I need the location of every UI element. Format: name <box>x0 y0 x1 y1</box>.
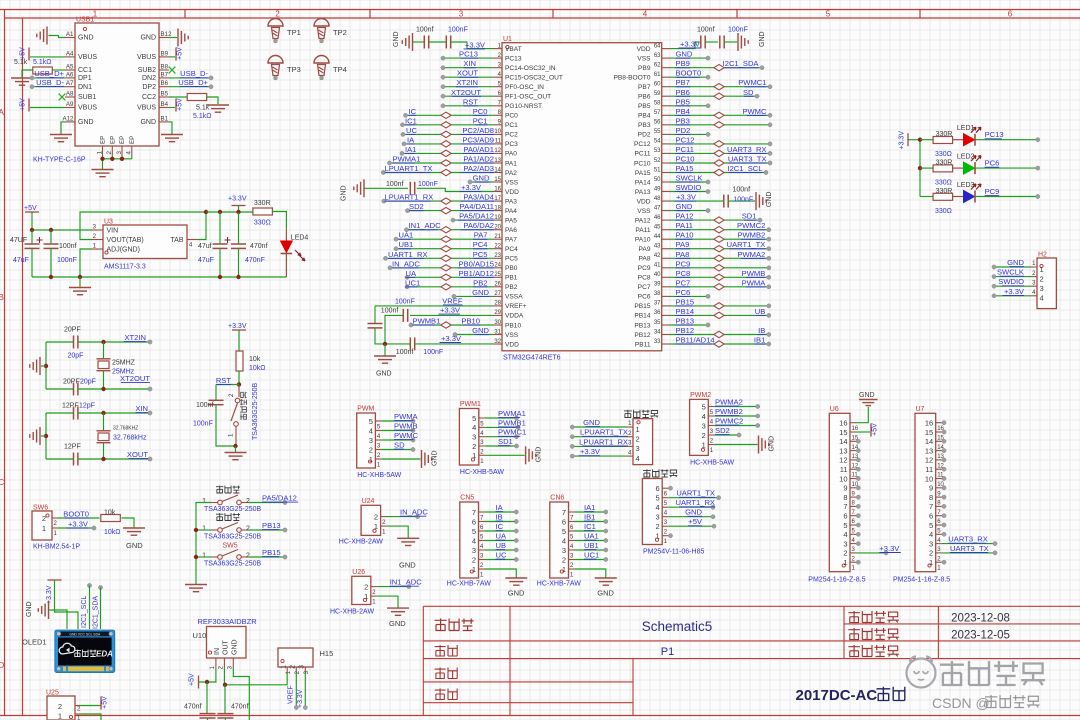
svg-text:UA: UA <box>406 269 417 278</box>
svg-text:2: 2 <box>843 549 847 558</box>
svg-text:PC10: PC10 <box>634 160 651 167</box>
U1 pin 59 net PB6 <box>670 88 759 100</box>
net I2C1_SCL at OLED <box>81 583 92 629</box>
svg-text:2: 2 <box>246 553 250 560</box>
svg-text:4: 4 <box>472 536 476 545</box>
U1 pin 58 net PB5 <box>670 97 710 108</box>
svg-text:USB_D-: USB_D- <box>180 69 208 78</box>
svg-text:PA14: PA14 <box>635 179 651 186</box>
svg-text:VOUT(TAB): VOUT(TAB) <box>107 237 144 244</box>
svg-text:PC9: PC9 <box>638 265 651 272</box>
svg-text:35: 35 <box>654 320 661 326</box>
capacitor 100nf at U1 pin1 <box>393 27 494 52</box>
svg-text:2: 2 <box>58 702 62 711</box>
svg-text:GND: GND <box>399 561 416 570</box>
svg-text:7: 7 <box>929 502 933 511</box>
svg-text:PA0: PA0 <box>505 151 517 158</box>
svg-text:47uF: 47uF <box>13 257 29 264</box>
svg-text:GND: GND <box>472 326 489 335</box>
svg-text:UB: UB <box>755 307 766 316</box>
svg-text:DN1: DN1 <box>78 84 92 91</box>
net SD at PWM pin2 <box>381 441 415 452</box>
svg-text:SD: SD <box>394 441 405 450</box>
U1 pin 61 net BOOT0 <box>670 69 710 80</box>
net +3.3V at U6 pin2 <box>856 544 901 555</box>
capacitor 100nf at U1 pin64 <box>670 27 766 52</box>
net GND at H2 <box>992 258 1031 269</box>
net stub U7 pin10 <box>942 476 946 480</box>
U1 pin 21 net PA7 <box>394 231 494 243</box>
svg-text:3: 3 <box>472 546 476 555</box>
svg-text:3: 3 <box>1040 284 1044 293</box>
U1 pin 62 net PB9 <box>670 59 764 71</box>
svg-text:HC-XHB-7AW: HC-XHB-7AW <box>447 581 491 588</box>
svg-text:25: 25 <box>494 272 501 278</box>
svg-text:PB4: PB4 <box>676 107 690 116</box>
svg-text:VSS: VSS <box>637 55 651 62</box>
svg-text:XIN: XIN <box>463 59 476 68</box>
U1 pin 15 net GND <box>468 174 494 185</box>
ground at CN5 pin1 <box>485 569 528 598</box>
connector U26 HC-XHB-2AW <box>330 569 377 616</box>
svg-text:39: 39 <box>654 282 661 288</box>
svg-text:GND: GND <box>766 192 773 208</box>
svg-text:1: 1 <box>202 553 206 560</box>
svg-text:6: 6 <box>472 517 476 526</box>
svg-text:USB_D-: USB_D- <box>36 78 64 87</box>
svg-text:+3.3V: +3.3V <box>228 196 247 203</box>
svg-text:PA11: PA11 <box>635 227 650 234</box>
net IC1 at CN6 <box>575 522 608 533</box>
connector USB1 KH-TYPE-C-16P <box>75 17 159 147</box>
svg-text:57: 57 <box>654 110 661 116</box>
svg-text:1: 1 <box>281 665 288 669</box>
oled module OLED1 <box>22 630 115 673</box>
svg-text:100nf: 100nf <box>196 402 214 409</box>
net +3.3V at H2 <box>992 287 1031 298</box>
svg-text:XT2OUT: XT2OUT <box>120 374 150 383</box>
U1 pin 56 net PB3 <box>670 116 772 128</box>
svg-text:54: 54 <box>654 139 661 145</box>
U1 pin 20 net PA6/DA2 <box>404 221 494 233</box>
svg-text:17: 17 <box>494 196 501 202</box>
svg-text:5: 5 <box>472 527 476 536</box>
svg-text:16: 16 <box>839 419 847 428</box>
svg-text:46: 46 <box>654 215 661 221</box>
svg-text:2: 2 <box>562 555 566 564</box>
svg-text:PWMA: PWMA <box>742 278 767 287</box>
svg-text:PB11: PB11 <box>635 341 651 348</box>
svg-text:SUB2: SUB2 <box>138 67 156 74</box>
net PWMC1 at PWM1 <box>485 428 526 439</box>
wire EP pins to ground <box>100 155 132 169</box>
svg-text:H2: H2 <box>1038 252 1047 259</box>
svg-text:PC6: PC6 <box>676 288 691 297</box>
svg-text:GND: GND <box>859 392 875 399</box>
svg-text:37: 37 <box>654 301 661 307</box>
svg-text:10kΩ: 10kΩ <box>249 365 266 372</box>
svg-text:PA8: PA8 <box>639 256 651 263</box>
svg-text:DP2: DP2 <box>142 84 156 91</box>
svg-text:UART1_TX: UART1_TX <box>676 489 715 498</box>
svg-text:6: 6 <box>562 517 566 526</box>
svg-text:REF3033AIDBZR: REF3033AIDBZR <box>198 617 258 626</box>
svg-text:100nF: 100nF <box>448 27 468 34</box>
net stub U6 pin10 <box>856 476 860 480</box>
svg-text:A8: A8 <box>66 91 74 98</box>
svg-text:470nf: 470nf <box>184 704 202 711</box>
svg-text:26: 26 <box>494 282 501 288</box>
svg-text:VIN: VIN <box>107 228 119 235</box>
svg-text:+3.3V: +3.3V <box>297 689 304 708</box>
svg-text:EP: EP <box>119 136 126 144</box>
svg-text:HC-XHB-7AW: HC-XHB-7AW <box>537 581 581 588</box>
U1 pin 11 net PC3/AD9 <box>402 135 494 147</box>
svg-text:UA1: UA1 <box>584 532 599 541</box>
svg-text:LED4: LED4 <box>291 235 309 242</box>
svg-text:XOUT: XOUT <box>127 450 148 459</box>
svg-text:IN_ADC: IN_ADC <box>392 259 420 268</box>
svg-text:CN5: CN5 <box>460 495 474 502</box>
svg-text:20: 20 <box>494 225 501 231</box>
svg-text:1: 1 <box>656 532 660 541</box>
svg-text:IB1: IB1 <box>584 513 595 522</box>
U1 pin 53 net PC11 <box>670 145 772 157</box>
svg-text:PC13: PC13 <box>985 130 1004 139</box>
svg-text:XIN: XIN <box>135 404 148 413</box>
svg-text:3: 3 <box>472 433 476 442</box>
svg-text:PA11: PA11 <box>676 221 693 230</box>
svg-text:PB9: PB9 <box>638 65 651 72</box>
connector serial-debug 4pin <box>624 410 658 465</box>
frame row letters <box>0 108 5 670</box>
svg-text:XT2IN: XT2IN <box>456 78 478 87</box>
watermark logo <box>907 657 936 688</box>
net UART1_TX at bluetooth <box>668 489 721 500</box>
svg-text:42: 42 <box>654 253 661 259</box>
capacitor 470nf at U10 input <box>184 682 216 720</box>
svg-text:15: 15 <box>925 428 933 437</box>
connector U24 HC-XHB-2AW <box>339 498 387 546</box>
net PWMA1 at PWM1 <box>485 409 526 420</box>
net IB at CN5 <box>485 513 519 524</box>
svg-text:7: 7 <box>562 508 566 517</box>
net stub U6 pin7 <box>856 504 860 508</box>
svg-text:XOUT: XOUT <box>457 69 478 78</box>
net VREF at H15 pin1 <box>287 673 294 705</box>
svg-text:UC: UC <box>496 551 507 560</box>
svg-text:1: 1 <box>202 498 206 505</box>
svg-text:GND: GND <box>472 288 489 297</box>
ground at U24 <box>387 526 420 545</box>
svg-text:2: 2 <box>472 442 476 451</box>
U1 pin 31 net GND <box>453 326 494 337</box>
connector PWM2 HC-XHB-5AW <box>690 392 735 467</box>
svg-text:PC8: PC8 <box>638 275 651 282</box>
svg-text:5: 5 <box>929 521 933 530</box>
svg-text:+3.3V: +3.3V <box>461 183 482 192</box>
U1 pin 46 net PA12 <box>670 212 762 224</box>
net RST node <box>216 376 241 387</box>
svg-text:HC-XHB-5AW: HC-XHB-5AW <box>690 459 734 466</box>
svg-text:+3.3V: +3.3V <box>1004 287 1025 296</box>
capacitor 100nf at U1 pin32 <box>385 334 494 356</box>
svg-text:PC4: PC4 <box>505 246 518 253</box>
ground at U6 pin16 <box>856 392 878 423</box>
svg-text:GND: GND <box>389 619 406 628</box>
svg-text:HC-XHB-5AW: HC-XHB-5AW <box>460 469 504 476</box>
svg-text:52: 52 <box>654 158 661 164</box>
net UB at CN5 <box>485 541 519 552</box>
svg-text:PC7: PC7 <box>676 278 691 287</box>
svg-text:2: 2 <box>374 512 378 521</box>
net SD2 at PWM2 <box>714 426 741 437</box>
net BOOT0 resistor 10k <box>58 510 134 537</box>
svg-text:A4: A4 <box>66 50 74 57</box>
svg-text:PC7: PC7 <box>638 284 651 291</box>
svg-text:IC: IC <box>496 522 504 531</box>
svg-text:B9: B9 <box>161 50 169 57</box>
svg-text:PWM2: PWM2 <box>690 392 711 399</box>
svg-text:SD1: SD1 <box>498 437 513 446</box>
svg-text:PA5: PA5 <box>505 217 517 224</box>
regulator U3 AMS1117-3.3 <box>92 219 198 271</box>
svg-text:12: 12 <box>494 148 501 154</box>
svg-text:GND: GND <box>1007 258 1024 267</box>
svg-text:GND: GND <box>231 639 238 655</box>
svg-text:IC1: IC1 <box>584 522 596 531</box>
connector U25 <box>46 690 81 720</box>
led LED1 <box>953 125 981 146</box>
net PA5/DA12 at button <box>248 494 298 505</box>
svg-text:PB13: PB13 <box>634 322 650 329</box>
svg-text:47: 47 <box>654 205 661 211</box>
svg-text:PWMA1: PWMA1 <box>393 155 421 164</box>
svg-text:2: 2 <box>656 522 660 531</box>
svg-text:4: 4 <box>843 530 847 539</box>
svg-text:PC13: PC13 <box>505 55 522 62</box>
svg-text:PA13: PA13 <box>635 189 651 196</box>
svg-text:11: 11 <box>840 465 848 474</box>
svg-text:U1: U1 <box>503 36 512 43</box>
net stub U7 pin5 <box>942 523 946 527</box>
svg-text:13: 13 <box>839 446 847 455</box>
net stub U7 pin16 <box>942 421 946 425</box>
svg-text:2023-12-08: 2023-12-08 <box>951 613 1010 625</box>
svg-text:16: 16 <box>852 426 859 432</box>
svg-text:10kΩ: 10kΩ <box>104 529 121 536</box>
svg-text:32: 32 <box>494 339 501 345</box>
connector H2 <box>1031 252 1056 309</box>
svg-text:8: 8 <box>929 493 933 502</box>
svg-text:4: 4 <box>702 412 706 421</box>
capacitor 100nf at U1 pin48 <box>670 187 773 211</box>
svg-text:USB1: USB1 <box>76 17 94 24</box>
title text YuanLiTu <box>435 619 474 631</box>
net XOUT wire <box>46 444 152 466</box>
U1 pin 49 net SWDIO <box>670 183 710 194</box>
svg-text:+5V: +5V <box>177 47 184 60</box>
svg-text:HC-XHB-2AW: HC-XHB-2AW <box>339 539 383 546</box>
svg-text:SD1: SD1 <box>742 212 757 221</box>
svg-text:PWM1: PWM1 <box>460 401 481 408</box>
svg-text:19: 19 <box>494 215 501 221</box>
net GND at serial header <box>570 418 627 429</box>
svg-text:PWM: PWM <box>357 406 374 413</box>
net LPUART1_RX at serial header <box>570 437 628 448</box>
svg-text:B: B <box>0 293 4 302</box>
svg-text:PA3: PA3 <box>505 198 517 205</box>
svg-text:12: 12 <box>839 456 847 465</box>
svg-text:TSA363G25-250B: TSA363G25-250B <box>204 534 262 541</box>
svg-text:PB9: PB9 <box>676 59 690 68</box>
svg-text:100nF: 100nF <box>193 421 213 428</box>
svg-text:3: 3 <box>843 539 847 548</box>
svg-text:PB11/AD14: PB11/AD14 <box>676 336 715 345</box>
svg-text:38: 38 <box>654 291 661 297</box>
net PWMB2 at PWM2 <box>714 407 760 418</box>
svg-text:53: 53 <box>654 148 661 154</box>
power +5V at USB A9 <box>20 98 66 112</box>
svg-text:PB7: PB7 <box>638 84 651 91</box>
svg-text:PA15: PA15 <box>635 170 651 177</box>
svg-text:PA0/AD1: PA0/AD1 <box>463 145 494 154</box>
svg-text:PF0-OSC_IN: PF0-OSC_IN <box>505 84 544 91</box>
svg-text:10: 10 <box>925 474 933 483</box>
svg-text:+3.3V: +3.3V <box>440 306 461 315</box>
svg-text:GND: GND <box>78 35 94 42</box>
crystal Y1 25MHZ <box>97 342 136 389</box>
U1 pin 57 net PB4 <box>670 107 772 119</box>
connector H15 <box>278 648 333 674</box>
USB1 left pins <box>62 31 97 126</box>
svg-text:18: 18 <box>494 205 501 211</box>
svg-text:EP: EP <box>129 136 136 144</box>
connector CN6 HC-XHB-7AW <box>537 495 581 588</box>
ground at USB B12 <box>169 29 188 47</box>
svg-text:4: 4 <box>126 151 133 155</box>
wire button common rail <box>194 503 211 585</box>
resistor 330R LED3 <box>920 188 953 215</box>
svg-text:5: 5 <box>472 414 476 423</box>
net stub U6 pin1 <box>856 560 860 564</box>
svg-text:LED2: LED2 <box>957 154 975 161</box>
svg-text:10k: 10k <box>249 356 261 363</box>
svg-text:UB1: UB1 <box>584 541 599 550</box>
svg-text:16: 16 <box>925 419 933 428</box>
net stub U6 pin3 <box>856 542 860 546</box>
ground at CC1 resistor <box>11 78 33 85</box>
capacitor 100nf input <box>44 230 77 277</box>
svg-text:GND: GND <box>393 31 400 47</box>
svg-text:PB14: PB14 <box>634 313 650 320</box>
svg-text:IA1: IA1 <box>584 503 595 512</box>
wire U25 pin1 <box>81 714 101 720</box>
svg-text:2: 2 <box>364 582 368 591</box>
svg-text:Schematic5: Schematic5 <box>642 619 713 634</box>
svg-text:4: 4 <box>562 536 566 545</box>
svg-text:I2C1_SCL: I2C1_SCL <box>81 596 88 628</box>
svg-text:PB1/AD12: PB1/AD12 <box>459 269 494 278</box>
svg-text:PC9: PC9 <box>985 187 1000 196</box>
testpoint TP3 <box>268 56 301 80</box>
svg-text:330R: 330R <box>936 188 953 195</box>
no-connect at SUB1 <box>59 94 66 101</box>
wire +3.3V rail <box>206 210 253 214</box>
U1 pin 7 net RST <box>441 97 494 108</box>
svg-text:PB3: PB3 <box>676 116 690 125</box>
svg-text:UC1: UC1 <box>405 278 420 287</box>
svg-text:5: 5 <box>369 417 373 426</box>
U1 pin 8 net PC0 <box>403 107 493 119</box>
svg-text:PM254-1-16-Z-8.5: PM254-1-16-Z-8.5 <box>893 577 950 584</box>
crystal Y2 32.768kHz <box>97 413 147 459</box>
svg-text:1: 1 <box>96 151 103 155</box>
power +3.3V at regulator output <box>228 196 247 213</box>
U1 pin 35 net PB13 <box>670 317 710 328</box>
svg-text:GND VCC SCL SDA: GND VCC SCL SDA <box>69 633 101 637</box>
power +5V at regulator input <box>24 205 39 230</box>
led LED3 <box>953 182 981 203</box>
svg-text:UC1: UC1 <box>584 551 599 560</box>
svg-text:29: 29 <box>494 310 501 316</box>
svg-text:48: 48 <box>654 196 661 202</box>
led LED2 <box>953 154 981 175</box>
svg-text:12PF: 12PF <box>64 444 81 451</box>
title text ShenYue <box>435 689 458 700</box>
svg-text:PC11: PC11 <box>634 151 650 158</box>
ground at 25MHZ crystal <box>30 342 48 389</box>
svg-text:8: 8 <box>843 493 847 502</box>
svg-text:2: 2 <box>702 431 706 440</box>
testpoint TP4 <box>314 56 347 80</box>
svg-text:PC8: PC8 <box>676 269 691 278</box>
net PWMC2 at PWM2 <box>714 417 760 428</box>
svg-text:UART3_TX: UART3_TX <box>950 544 989 553</box>
USB1 EP pins <box>96 136 136 155</box>
svg-text:GND: GND <box>597 589 614 598</box>
svg-text:330Ω: 330Ω <box>935 179 952 186</box>
U1 pin 19 net PA5/DA12 <box>451 212 494 223</box>
svg-text:PA4: PA4 <box>505 208 517 215</box>
svg-text:2: 2 <box>1040 274 1044 283</box>
USB1 right pins <box>137 31 172 126</box>
svg-text:SD2: SD2 <box>715 426 730 435</box>
net stub U7 pin12 <box>942 458 946 462</box>
net IN1_ADC at U26 <box>377 578 422 589</box>
net SWCLK at H2 <box>992 268 1031 279</box>
power +3.3V at reset <box>228 323 247 351</box>
U1 pin 37 net PB15 <box>670 297 771 309</box>
svg-text:+3.3V: +3.3V <box>580 447 601 456</box>
svg-text:PF1-OSC_OUT: PF1-OSC_OUT <box>505 94 551 101</box>
title text ChuangJianRiQi <box>848 628 899 640</box>
net UA at CN5 <box>485 532 519 543</box>
net USB_D+ left <box>30 69 65 80</box>
svg-text:CC1: CC1 <box>78 67 92 74</box>
svg-text:1: 1 <box>472 565 476 574</box>
svg-text:PA8: PA8 <box>676 250 690 259</box>
svg-text:24: 24 <box>494 263 501 269</box>
net USB_D- right <box>169 69 213 80</box>
svg-text:IA: IA <box>496 503 504 512</box>
svg-text:5: 5 <box>562 527 566 536</box>
svg-text:PA7: PA7 <box>505 237 517 244</box>
net PC13 at LED1 <box>976 130 1040 142</box>
svg-text:PA10: PA10 <box>676 231 694 240</box>
svg-text:PB12: PB12 <box>634 332 650 339</box>
svg-text:PWMB1: PWMB1 <box>413 317 441 326</box>
